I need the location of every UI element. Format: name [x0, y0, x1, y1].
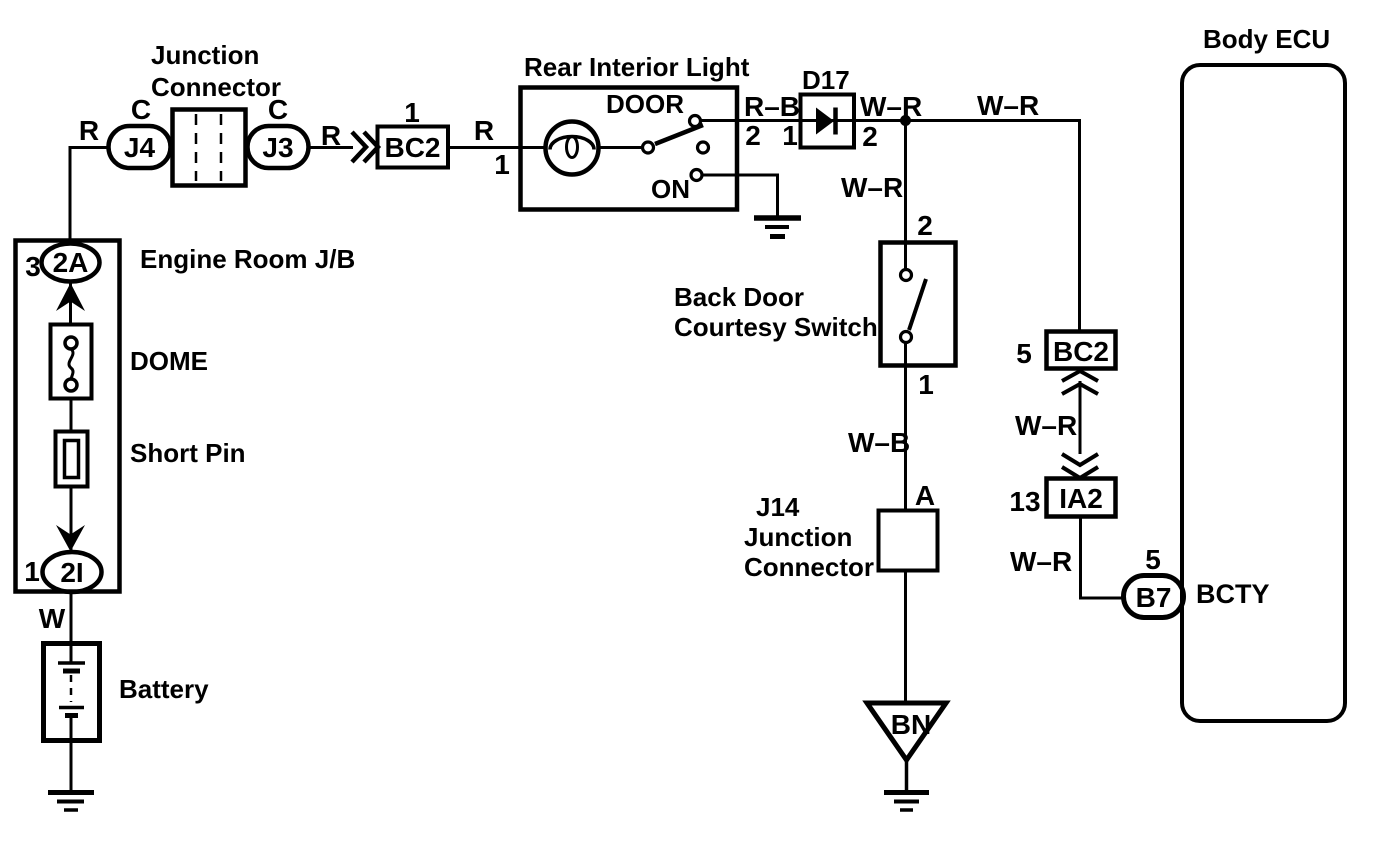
wire 2I to battery: [70, 592, 73, 644]
svg-text:5: 5: [1145, 544, 1161, 575]
svg-text:R: R: [321, 120, 341, 151]
svg-text:W–R: W–R: [977, 90, 1039, 121]
svg-text:1: 1: [918, 369, 934, 400]
connector J4: [109, 126, 171, 168]
junction node: [900, 115, 911, 126]
wire BC2 to IA2: [1079, 381, 1082, 454]
Body ECU box: [1182, 65, 1345, 721]
svg-text:1: 1: [782, 120, 798, 151]
switch arm: [909, 279, 926, 330]
wire switch to J14: [904, 343, 907, 511]
connector chevrons into BC2: [352, 132, 378, 162]
svg-text:W–R: W–R: [841, 172, 903, 203]
svg-text:J3: J3: [262, 132, 293, 163]
connector IA2 pin 13: [1047, 479, 1116, 517]
svg-text:1: 1: [494, 149, 510, 180]
switch top contact: [901, 270, 912, 281]
diode D17: [801, 95, 855, 148]
svg-text:A: A: [915, 480, 935, 511]
switch bottom contact: [901, 332, 912, 343]
svg-text:Battery: Battery: [119, 674, 209, 704]
Rear Interior Light box: [521, 88, 738, 210]
svg-text:IA2: IA2: [1059, 483, 1103, 514]
ground symbol: [884, 790, 929, 795]
svg-text:Junction: Junction: [744, 522, 852, 552]
svg-text:Body ECU: Body ECU: [1203, 24, 1330, 54]
svg-text:2A: 2A: [53, 247, 89, 278]
svg-text:D17: D17: [802, 65, 850, 95]
ON contact: [691, 170, 702, 181]
svg-text:Rear Interior Light: Rear Interior Light: [524, 52, 750, 82]
svg-text:Back Door: Back Door: [674, 282, 804, 312]
svg-text:W–R: W–R: [1010, 546, 1072, 577]
ground below battery: [48, 790, 94, 795]
short pin: [56, 432, 88, 487]
connector BC2 pin 1: [378, 127, 449, 168]
chevrons above IA2: [1062, 454, 1098, 478]
wire ON contact to ground: [702, 175, 778, 216]
Engine Room J/B box: [16, 241, 120, 592]
wire short pin to 2I: [70, 487, 73, 553]
svg-text:Connector: Connector: [744, 552, 874, 582]
svg-text:1: 1: [24, 556, 40, 587]
svg-text:BCTY: BCTY: [1196, 579, 1270, 609]
svg-text:3: 3: [25, 251, 41, 282]
chevrons below BC2: [1062, 371, 1098, 394]
wire DOOR contact to D17 and junction: [701, 119, 1079, 122]
switch arm: [655, 125, 703, 144]
svg-text:2I: 2I: [60, 557, 83, 588]
wire junction right and down to BC2: [906, 121, 1080, 333]
svg-text:Engine Room J/B: Engine Room J/B: [140, 244, 355, 274]
svg-text:R: R: [474, 115, 494, 146]
wire BN to ground: [905, 758, 909, 791]
svg-text:R–B: R–B: [744, 91, 800, 122]
svg-text:2: 2: [862, 121, 878, 152]
wire IA2 to B7: [1081, 517, 1125, 598]
ground point BN: [867, 703, 946, 760]
lamp bulb: [546, 122, 599, 175]
DOOR contact: [690, 116, 701, 127]
middle contact: [698, 142, 709, 153]
svg-text:BN: BN: [891, 709, 931, 740]
connector BC2 pin 5: [1047, 332, 1116, 369]
svg-text:W–R: W–R: [860, 91, 922, 122]
connector J3: [248, 126, 309, 168]
Back Door Courtesy Switch box: [881, 243, 956, 366]
svg-text:Connector: Connector: [151, 72, 281, 102]
svg-text:R: R: [79, 115, 99, 146]
wire BC2 to Rear Interior Light: [448, 146, 546, 149]
wire fuse to short pin: [70, 399, 73, 432]
wire J14 to ground BN: [904, 571, 907, 703]
svg-text:C: C: [268, 94, 288, 125]
svg-text:13: 13: [1009, 486, 1040, 517]
svg-text:J14: J14: [756, 492, 800, 522]
connector B7: [1124, 576, 1184, 618]
connector 2I pin 1: [43, 552, 102, 592]
svg-text:Courtesy Switch: Courtesy Switch: [674, 312, 878, 342]
wire 2A to fuse: [69, 281, 72, 325]
svg-text:2: 2: [917, 210, 933, 241]
switch common contact: [643, 142, 654, 153]
junction connector block: [173, 110, 246, 186]
svg-text:B7: B7: [1136, 582, 1172, 613]
fuse DOME: [51, 325, 92, 399]
svg-text:J4: J4: [124, 132, 156, 163]
svg-text:BC2: BC2: [1053, 336, 1109, 367]
wire R from J4 to Engine Room J/B: [70, 148, 110, 242]
wire lamp to switch: [598, 146, 643, 149]
svg-text:BC2: BC2: [384, 132, 440, 163]
wire J3 to BC2: [308, 146, 353, 149]
svg-text:Short Pin: Short Pin: [130, 438, 246, 468]
svg-text:Junction: Junction: [151, 40, 259, 70]
battery: [44, 644, 100, 741]
svg-text:1: 1: [404, 97, 420, 128]
svg-text:W–B: W–B: [848, 427, 910, 458]
svg-text:DOME: DOME: [130, 346, 208, 376]
current flow arrow up: [56, 283, 85, 311]
svg-text:C: C: [131, 94, 151, 125]
wire junction down to back door switch: [904, 121, 907, 270]
svg-text:W: W: [39, 603, 66, 634]
svg-text:DOOR: DOOR: [606, 89, 684, 119]
svg-text:2: 2: [745, 120, 761, 151]
svg-text:W–R: W–R: [1015, 410, 1077, 441]
svg-text:5: 5: [1016, 338, 1032, 369]
current flow arrow down: [56, 525, 85, 552]
junction connector J14: [879, 511, 938, 571]
connector 2A pin 3: [42, 244, 100, 282]
svg-text:ON: ON: [651, 174, 690, 204]
ground below light: [754, 215, 801, 221]
